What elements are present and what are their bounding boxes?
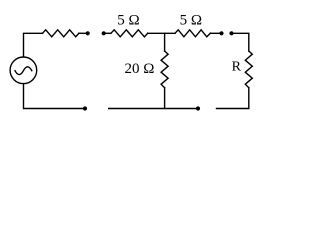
svg-text:5 Ω: 5 Ω	[117, 13, 139, 29]
node e (bottom-left terminal dot)	[83, 106, 87, 110]
node a (top-left terminal dot)	[86, 31, 90, 35]
ac source V1	[10, 57, 37, 84]
svg-text:5 Ω: 5 Ω	[180, 13, 202, 29]
wire from node b to 5-ohm resistor	[106, 32, 111, 34]
resistor R2 5-ohm (left)	[111, 30, 148, 37]
node d (top-right dot right of gap)	[229, 31, 233, 35]
wire bottom middle segment	[109, 108, 196, 110]
wire to right port top terminal	[210, 32, 219, 34]
wire bottom-left: source bottom down and right	[24, 84, 84, 109]
svg-text:20 Ω: 20 Ω	[125, 61, 155, 77]
svg-text:R: R	[232, 59, 242, 74]
resistor R4 20-ohm (middle vertical)	[161, 51, 168, 88]
wire R bottom to bottom rail	[217, 88, 249, 109]
node c (top-right terminal dot)	[219, 31, 223, 35]
node b (top terminal dot right of gap)	[102, 31, 106, 35]
wire top-left: source top to resistor	[24, 33, 43, 57]
wire to junction and on to second 5-ohm	[148, 32, 175, 34]
wire top-right corner down to resistor R	[233, 33, 248, 51]
resistor R1 (unlabeled, top-left)	[43, 30, 79, 37]
resistor R3 5-ohm (right)	[175, 30, 210, 37]
wire to left port top terminal	[79, 32, 86, 34]
wire 20-ohm bottom to bottom rail	[164, 88, 166, 109]
resistor R (right vertical)	[245, 51, 252, 88]
junction node at top of 20-ohm	[164, 33, 166, 51]
node f (bottom terminal dot)	[196, 106, 200, 110]
